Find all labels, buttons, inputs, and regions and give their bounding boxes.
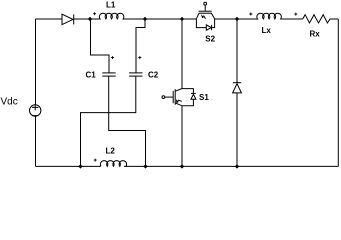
marker * at Rx left <box>294 13 297 16</box>
wire top rail from node B to node E <box>145 18 196 20</box>
label C1 <box>86 70 97 79</box>
node F (junction top, x=237) <box>235 17 239 21</box>
svg-text:Lx: Lx <box>262 26 272 35</box>
wire from D1 to node A <box>74 18 90 20</box>
label Vdc <box>1 96 18 107</box>
wire left vertical from top rail to Vdc+ <box>35 19 37 105</box>
mosfet S1 (vertical branch) <box>162 89 196 106</box>
wire from D2 anode down to bottom rail <box>236 93 238 166</box>
label Lx <box>262 26 272 35</box>
svg-text:Rx: Rx <box>310 29 321 38</box>
marker * at Lx left <box>249 13 252 16</box>
marker * at L1 left <box>93 12 96 15</box>
wire top rail from S2 to node F <box>215 18 237 20</box>
capacitor C1 <box>102 73 115 76</box>
wire right vertical <box>337 19 339 166</box>
svg-text:L2: L2 <box>106 146 116 155</box>
node E (junction top, x=182) <box>180 17 184 21</box>
bottom rail right segment <box>124 165 338 167</box>
inductor L2 <box>100 161 126 167</box>
inductor Lx <box>237 13 303 19</box>
resistor Rx <box>303 15 339 23</box>
node G (junction bottom, x=182) <box>180 164 184 168</box>
node D (junction bottom, x=145.5) <box>143 164 147 168</box>
label S1 <box>199 93 209 102</box>
marker + at C1 top <box>111 56 114 59</box>
inductor L1 <box>90 13 145 19</box>
wire step from node B down to C2 top <box>136 19 145 73</box>
diode D2 branch: wire from node F down to D2 cathode <box>236 19 238 83</box>
svg-text:C2: C2 <box>148 70 159 79</box>
node B (junction top, x=145) <box>143 17 147 21</box>
svg-text:L1: L1 <box>106 0 116 9</box>
label L2 <box>106 146 116 155</box>
label L1 <box>106 0 116 9</box>
mosfet S1 branch: wire from node E down to S1 drain <box>181 19 183 89</box>
mosfet S2 (horizontal on top rail) <box>196 2 214 30</box>
wire top rail from left corner to diode D1 <box>36 18 63 20</box>
wire step from node A down to C1 top <box>91 19 110 73</box>
wire left vertical from Vdc- to bottom rail <box>35 116 37 166</box>
voltage source Vdc <box>30 104 41 116</box>
label C2 <box>148 70 159 79</box>
node H (junction bottom, x=237) <box>235 164 239 168</box>
svg-text:S2: S2 <box>205 35 215 44</box>
diode D1 <box>62 14 74 24</box>
svg-text:Vdc: Vdc <box>1 96 18 107</box>
svg-text:C1: C1 <box>86 70 97 79</box>
marker + at C2 top <box>138 56 141 59</box>
marker * at L2 left <box>94 159 97 162</box>
wire from S1 source down to bottom rail <box>181 106 183 167</box>
capacitor C2 <box>129 73 142 76</box>
node C (junction bottom, x=80.5) <box>78 164 82 168</box>
wire from C2 bottom routed to node C (bottom) <box>81 76 136 166</box>
svg-text:S1: S1 <box>199 93 209 102</box>
label S2 <box>205 35 215 44</box>
node A (junction top, x=90) <box>88 17 92 21</box>
bottom rail left segment <box>36 165 101 167</box>
wire from C1 bottom routed to node D (bottom) <box>109 76 146 166</box>
diode D2 (freewheeling, pointing up) <box>233 83 242 93</box>
label Rx <box>310 29 321 38</box>
